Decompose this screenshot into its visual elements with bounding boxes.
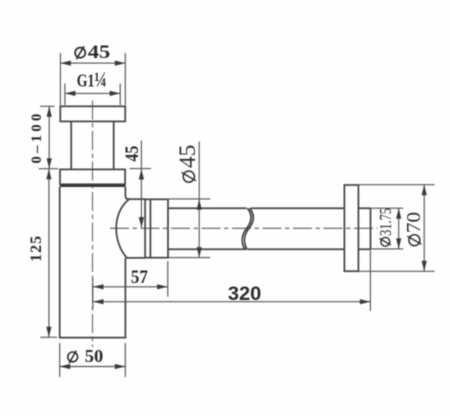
dimension Ø70 line with arrows — [422, 185, 427, 272]
svg-text:70: 70 — [404, 212, 425, 233]
body top seam (heavy line) — [60, 185, 126, 187]
dimension Ø31.75 line with arrows — [396, 208, 401, 249]
label G1 1/4 — [77, 67, 107, 91]
dimension 57 extension line — [167, 261, 169, 297]
svg-text:G1¼: G1¼ — [77, 67, 107, 91]
upper flange of bottle — [60, 169, 125, 184]
label Ø50 — [68, 346, 104, 366]
svg-text:45: 45 — [123, 146, 143, 162]
dimension G1 1/4 extension lines — [65, 84, 120, 106]
label Ø70 — [404, 212, 425, 246]
trap inlet housing bottom line — [125, 257, 145, 259]
dimension Ø50 line with arrows — [60, 364, 126, 369]
dimension Ø45 (nut) extension lines — [169, 199, 211, 258]
label Ø45 (top) — [75, 43, 110, 63]
pipe stub after wall flange — [358, 208, 370, 249]
label 125 — [28, 236, 45, 262]
bottle centerline extension for 57/320 — [92, 278, 94, 310]
label 45 — [123, 146, 143, 162]
label 57 — [131, 267, 148, 288]
label Ø45 (nut) — [175, 145, 200, 183]
svg-text:45: 45 — [175, 145, 200, 169]
svg-text:125: 125 — [28, 236, 45, 262]
label 320 — [228, 283, 262, 305]
inlet tube — [71, 121, 114, 169]
union nut — [145, 199, 168, 257]
dimension 57 line with arrows — [93, 284, 168, 289]
svg-text:57: 57 — [131, 267, 148, 288]
dimension Ø45 (top) line with arrows — [60, 61, 125, 66]
dimension 45 tick at flange top — [130, 168, 152, 170]
svg-text:45: 45 — [88, 43, 111, 63]
trap inlet housing top line — [129, 198, 146, 200]
dimension 45 line with arrows — [139, 141, 144, 228]
wall flange (escutcheon) — [344, 185, 358, 271]
outlet pipe (left of break) — [168, 208, 247, 249]
dimension Ø70 extension lines — [358, 185, 434, 272]
outlet pipe (right of break) — [247, 208, 344, 249]
pipe break symbol — [242, 208, 253, 249]
pipe end edge — [370, 208, 372, 249]
svg-text:50: 50 — [85, 346, 104, 366]
svg-text:0–100: 0–100 — [29, 114, 45, 164]
dimension 0-100 line with arrows — [47, 106, 52, 168]
svg-text:320: 320 — [228, 283, 262, 305]
dimension 320 line with arrows — [93, 299, 370, 304]
dimension Ø45 (nut) line with arrows — [197, 142, 202, 258]
dimension G1 1/4 line with arrows — [65, 91, 120, 96]
dimension 125 bottom tick — [40, 336, 57, 338]
horizontal centerline of outlet pipe — [110, 227, 378, 229]
dimension 320 extension line at pipe end — [369, 250, 371, 311]
vertical centerline of bottle body — [92, 101, 94, 348]
top cap (inlet flange) — [60, 106, 125, 121]
bottle body outline — [60, 187, 129, 338]
dimension 125 line with arrows — [46, 169, 51, 338]
dimension 0-100 ticks — [39, 106, 58, 168]
trap dome curve — [116, 199, 129, 258]
dimension Ø31.75 extension lines — [371, 208, 404, 249]
dimension Ø50 extension lines — [60, 343, 126, 377]
label 0-100 — [29, 114, 45, 164]
svg-text:31.75: 31.75 — [376, 208, 395, 236]
dimension Ø45 (top) extension lines — [60, 53, 125, 105]
label Ø31.75 — [376, 208, 395, 246]
